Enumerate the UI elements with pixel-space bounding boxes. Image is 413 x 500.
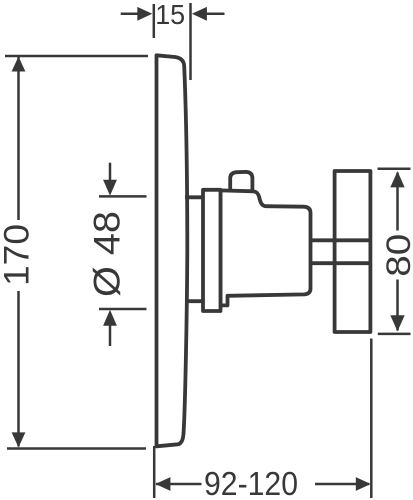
handle axle lower line (310, 261, 370, 265)
dimension d48 bottom arrow stem (109, 325, 112, 346)
wall plate escutcheon (side view) (157, 55, 188, 446)
svg-text:15: 15 (155, 0, 185, 30)
dimension 92-120 left arrowhead (155, 477, 170, 491)
dimension 170 top arrowhead (12, 57, 26, 72)
dimension 15 left arrowhead (137, 7, 152, 21)
dimension 80 bottom extension line (378, 333, 411, 336)
dimension 92-120 right extension line (370, 339, 373, 499)
svg-text:92-120: 92-120 (204, 465, 298, 500)
dimension 170 top extension line (5, 55, 148, 58)
svg-text:170: 170 (0, 224, 37, 286)
dimension d48 top arrowhead (103, 180, 117, 196)
dimension 15 right extension line (189, 3, 192, 80)
svg-text:Ø 48: Ø 48 (87, 211, 128, 297)
dimension 170 line (17, 57, 20, 447)
dimension 15 left arrow stem (121, 13, 139, 16)
plate-to-collar stub top (185, 195, 204, 199)
dimension 15 right arrow stem (206, 13, 225, 16)
dimension 170 bottom extension line (7, 447, 146, 450)
dimension 80 top extension line (378, 167, 411, 170)
dimension 80 line (396, 173, 399, 331)
collar flange (203, 190, 221, 311)
dimension d48 top tick (99, 195, 147, 198)
dimension 92-120 line (156, 483, 369, 486)
dimension 15 left extension line (153, 4, 156, 38)
dimension 80 top arrowhead (390, 171, 404, 187)
dimension 92-120 right arrowhead (356, 477, 371, 491)
valve stem cap (230, 172, 252, 194)
dimension 80 bottom arrowhead (390, 315, 404, 331)
dimension 15 right arrowhead (192, 7, 207, 21)
dimension 92-120 left extension line (153, 446, 156, 498)
handle axle upper line (310, 238, 370, 242)
plate-to-collar stub bottom (185, 299, 204, 303)
handle cross-bar (side view) (335, 171, 371, 332)
dimension 170 bottom arrowhead (12, 432, 26, 447)
dimension d48 top arrow stem (109, 163, 112, 181)
dimension d48 bottom arrowhead (103, 310, 117, 326)
svg-text:80: 80 (380, 234, 413, 277)
valve body (221, 190, 311, 305)
dimension d48 bottom tick (99, 308, 147, 311)
